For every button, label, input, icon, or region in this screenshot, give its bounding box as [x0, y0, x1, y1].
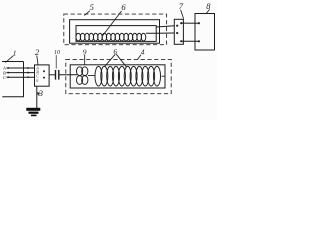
- switchboard box 2: [35, 65, 50, 86]
- svg-text:0: 0: [36, 78, 38, 83]
- svg-text:7: 7: [179, 1, 184, 11]
- svg-text:10: 10: [54, 50, 60, 56]
- right coil (multi-turn solenoid winding): [95, 66, 161, 86]
- leader for label 6: [103, 11, 122, 36]
- phase line A: [7, 67, 35, 69]
- feeder drop wire: [2, 62, 23, 97]
- arrowhead B outer: [8, 72, 11, 74]
- left coil (few-turn winding, figure-eight loops): [77, 67, 88, 85]
- furnace body rectangle (bottom): [70, 65, 165, 88]
- dashed enclosure (bottom furnace unit): [66, 59, 171, 93]
- furnace crucible rectangle (top): [76, 26, 156, 42]
- leader for label 7: [181, 10, 184, 19]
- arrowhead label 3: [37, 92, 40, 95]
- arrowhead A inner: [28, 67, 31, 69]
- leader for label 9: [84, 55, 86, 65]
- leader for label 10: [55, 55, 57, 69]
- leader slash for label 1: [5, 56, 13, 63]
- wire lower output from coil to box 7: [146, 32, 174, 34]
- connecting wire between bottom coils: [88, 75, 96, 77]
- svg-text:6: 6: [121, 2, 126, 12]
- ground wire from box 2: [36, 86, 38, 108]
- coil tail to rect edge: [162, 75, 166, 77]
- wire box7 to box8 lower: [181, 40, 199, 42]
- forked leader left leg: [105, 54, 116, 66]
- svg-text:4: 4: [141, 47, 145, 56]
- arrowhead C inner: [28, 76, 31, 78]
- wire upper output from furnace rect to box 7: [156, 26, 174, 27]
- phase line B: [7, 72, 35, 74]
- terminal dots inside box 7: [176, 25, 178, 27]
- arrowhead B inner: [28, 72, 31, 74]
- feed wire into bottom furnace: [59, 74, 77, 76]
- terminal dots inside box 8: [198, 22, 200, 24]
- arrowhead C outer: [8, 76, 11, 78]
- svg-text:5: 5: [90, 2, 94, 12]
- wire box7 to box8 upper: [181, 22, 199, 24]
- phase line C: [7, 76, 35, 78]
- earth ground symbol: [26, 108, 40, 111]
- capacitor 10 plate left: [55, 70, 57, 80]
- capacitor 10 plate right: [58, 70, 60, 80]
- furnace outer shell rectangle (top): [70, 20, 160, 44]
- output terminal dots in box 2: [43, 70, 45, 72]
- switchgear box 8: [195, 14, 215, 51]
- inductor coil 6 (top winding): [76, 33, 146, 41]
- incoming feeder wire (top): [2, 61, 24, 63]
- svg-text:8: 8: [206, 1, 211, 11]
- arrowhead A outer: [8, 67, 11, 69]
- leader for label 4: [138, 55, 141, 60]
- leader for label 5: [84, 11, 89, 16]
- leader for label 8: [206, 9, 210, 14]
- forked leader right leg: [116, 54, 126, 67]
- capacitor/contact box 7: [174, 19, 183, 44]
- dashed enclosure 5 (generator unit): [64, 14, 167, 45]
- leader for label 2: [37, 56, 38, 65]
- output wire from box 2: [49, 74, 55, 76]
